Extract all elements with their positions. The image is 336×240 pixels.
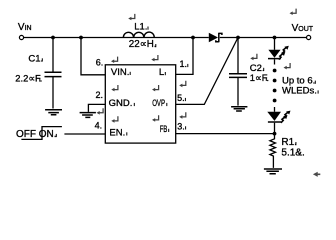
node junction FB/R1: [273, 132, 277, 136]
L1 value label 22uH: [129, 39, 157, 50]
capacitor C2: [229, 38, 247, 106]
svg-text:5.1&.: 5.1&.: [281, 147, 304, 158]
svg-text:EN.: EN.: [109, 127, 125, 138]
svg-text:2.: 2.: [96, 90, 104, 100]
svg-text:1∝F.: 1∝F.: [250, 72, 269, 83]
C2 reference label: [250, 63, 265, 74]
svg-text:WLEDs.: WLEDs.: [282, 85, 317, 96]
formatting mark (CR) IC interior right row3: [152, 115, 159, 121]
VOUT label: [292, 23, 314, 34]
op-amp/IC U1 box: [105, 65, 175, 143]
R1 value label 5.1 ohm: [281, 147, 304, 158]
L1 reference label: [134, 22, 148, 33]
VIN label: [18, 22, 32, 33]
wire GND pin to ground: [88, 104, 105, 112]
diode D1 (schottky): [209, 33, 222, 43]
inductor L1: [123, 32, 154, 37]
VOUT terminal: [307, 35, 311, 39]
node junction j2 (VIN pin tap): [79, 36, 83, 40]
pin number 6: [96, 57, 104, 67]
svg-text:1.: 1.: [180, 59, 188, 69]
wire VIN pin branch: [81, 38, 105, 75]
svg-text:3.: 3.: [177, 121, 185, 131]
wire top rail: [24, 37, 307, 39]
formatting mark (CR) near GND ground: [97, 108, 104, 114]
formatting mark (CR) above VOUT: [290, 9, 297, 15]
formatting mark (CR) IC interior left row3: [111, 116, 118, 122]
formatting mark (CR) above IC left: [111, 57, 118, 63]
svg-text:OVP: OVP: [152, 98, 165, 109]
wire OVP pin diagonal to output node: [176, 38, 238, 105]
pin number 1: [180, 59, 189, 69]
formatting mark (CR) left of C2 label: [250, 54, 257, 60]
LED string ellipsis dots: [273, 69, 277, 103]
formatting mark (CR) right of LED1: [284, 63, 291, 69]
pin number 2: [96, 90, 104, 100]
formatting mark (CR) IC interior left row2: [111, 85, 118, 91]
pin label VIN (inside): [111, 67, 131, 78]
resistor R1: [270, 134, 276, 168]
capacitor C1: [45, 38, 62, 109]
svg-text:6.: 6.: [96, 57, 104, 67]
svg-text:22∝H.: 22∝H.: [129, 39, 157, 50]
pin label GND (inside): [109, 98, 135, 109]
svg-text:L: L: [159, 67, 164, 78]
C1 value label 2.2uF: [15, 73, 42, 84]
formatting mark (CR) IC interior right row2: [152, 85, 159, 91]
VIN terminal: [19, 35, 23, 39]
wire L pin to top rail: [176, 38, 193, 75]
pin label EN (inside): [109, 127, 127, 138]
wire EN pin: [64, 133, 105, 135]
C1 reference label: [28, 53, 43, 64]
formatting mark (CR) above IC right: [151, 55, 158, 61]
formatting mark (CR) above L1: [128, 14, 135, 20]
svg-text:OFF ON.: OFF ON.: [16, 129, 57, 140]
node junction j1 (C1 tap): [51, 36, 55, 40]
node junction j5 (LED string tap): [273, 36, 277, 40]
LED D3 (bottom white LED): [267, 107, 290, 134]
formatting mark (CR) right of pin 5: [179, 112, 186, 118]
pin label L (inside right): [159, 67, 166, 78]
pin number 4: [95, 120, 103, 130]
ground (C2): [231, 107, 247, 111]
formatting mark (left arrow) bottom right: [313, 172, 320, 177]
ground (C1): [45, 110, 62, 115]
OFF ON label: [16, 129, 57, 140]
R1 reference label: [281, 137, 297, 148]
svg-text:4.: 4.: [95, 120, 103, 130]
svg-text:2.2∝F.: 2.2∝F.: [15, 73, 42, 84]
svg-text:FB: FB: [160, 124, 168, 135]
pin number 5: [177, 93, 186, 103]
Up to 6 WLEDs note: [282, 76, 319, 97]
svg-text:C1.: C1.: [28, 53, 43, 64]
wire FB pin to R1: [176, 133, 275, 135]
ground (R1): [264, 169, 282, 174]
C2 value label 1uF: [250, 72, 269, 83]
svg-text:R1.: R1.: [281, 137, 297, 148]
pin label OVP (inside right): [152, 98, 167, 109]
wire LED string top: [274, 38, 276, 50]
switch waveform OFF/ON step: [21, 127, 62, 140]
svg-text:GND.: GND.: [109, 98, 133, 109]
svg-text:L1.: L1.: [134, 22, 147, 33]
svg-text:VIN: VIN: [18, 22, 32, 33]
node junction j3 (L pin tap): [191, 36, 195, 40]
node junction j4 (diode cathode / OVP): [236, 36, 240, 40]
pin number 3: [177, 121, 186, 131]
LED D2 (top white LED): [268, 46, 289, 65]
svg-text:VOUT: VOUT: [292, 23, 314, 34]
svg-text:VIN.: VIN.: [111, 67, 129, 78]
svg-text:5.: 5.: [177, 93, 185, 103]
pin label FB (inside right): [160, 124, 169, 135]
formatting mark (CR) right of pin 1: [179, 81, 186, 87]
ground (GND pin): [80, 113, 96, 118]
